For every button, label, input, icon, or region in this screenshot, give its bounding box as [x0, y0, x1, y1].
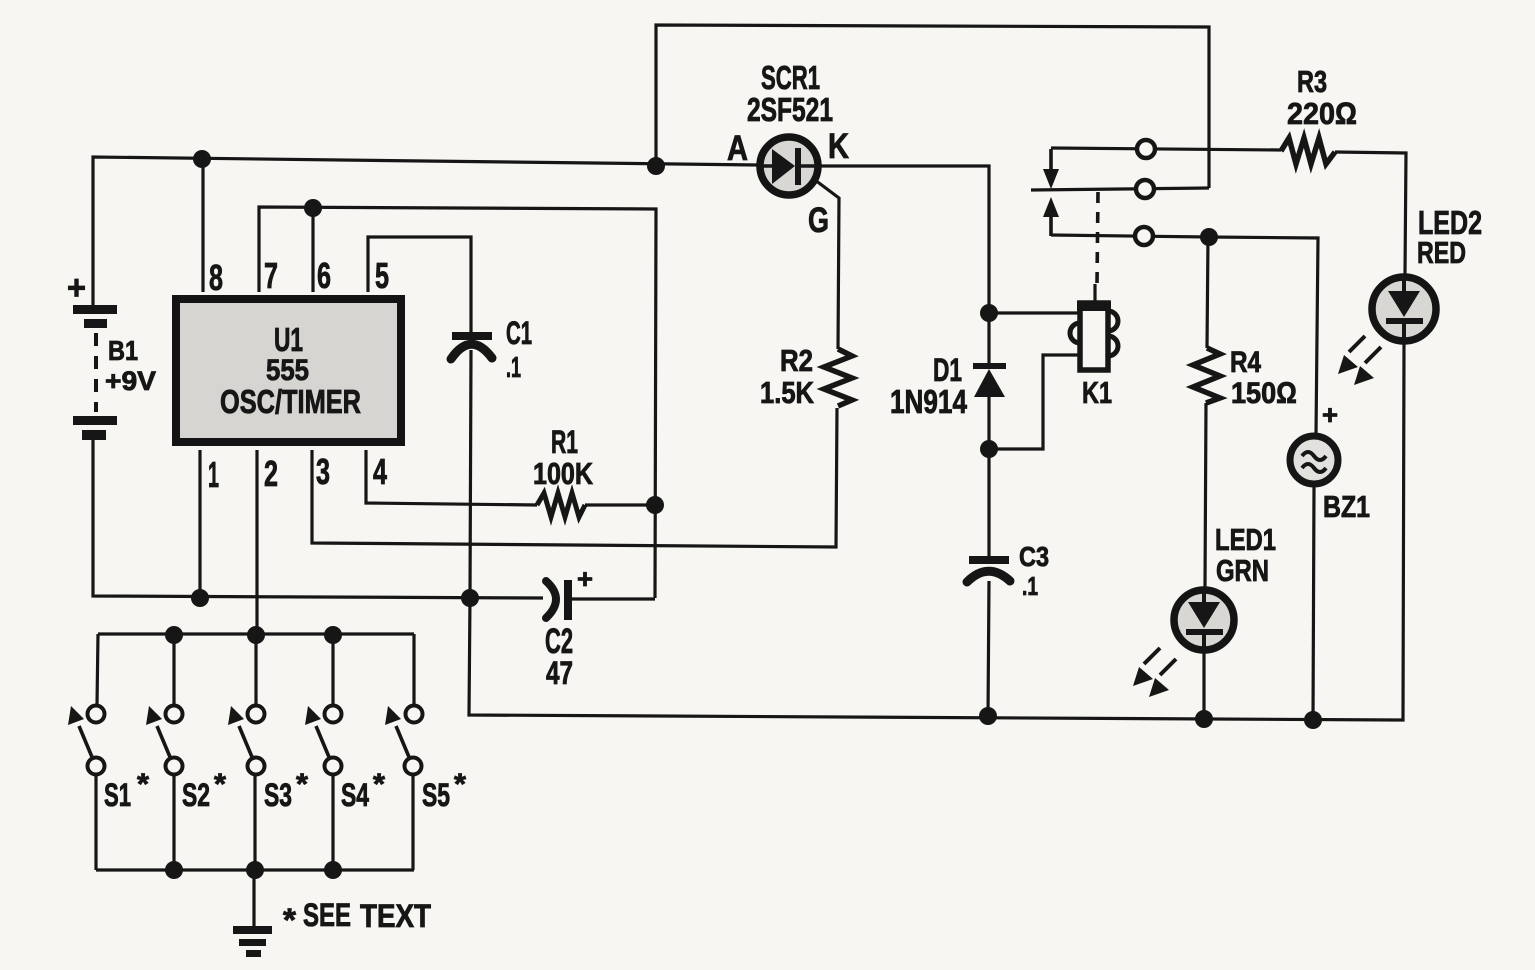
switch S2 [166, 706, 183, 723]
node LED1 bottom rail [1195, 710, 1213, 728]
svg-text:+: + [67, 269, 86, 307]
node C1 C2 bottom line [461, 589, 479, 607]
node relay contact R4 [1200, 228, 1218, 246]
IC U1 555 body [176, 299, 401, 442]
wire S3 top stub [254, 635, 257, 705]
resistor R3 zigzag [1281, 138, 1335, 164]
svg-text:C1: C1 [506, 315, 532, 351]
node BZ1 bottom rail [1304, 711, 1322, 729]
relay contact arrow down [1049, 149, 1053, 172]
wire C1 bottom down to bottom line junction [470, 350, 471, 598]
wire S4 top stub [331, 635, 334, 705]
wire R4 bottom to LED1 top [1205, 403, 1206, 587]
node D1 cathode coil return [980, 440, 998, 458]
svg-text:220Ω: 220Ω [1287, 96, 1357, 131]
svg-text:1.5K: 1.5K [760, 375, 815, 410]
relay contact arrow up [1043, 197, 1059, 217]
svg-text:S4: S4 [341, 777, 369, 813]
svg-text:B1: B1 [108, 335, 138, 366]
wire R1 right end to junction [585, 503, 655, 506]
node C3 bottom rail [979, 707, 997, 725]
svg-text:.1: .1 [506, 352, 521, 384]
switch S5 [406, 706, 423, 723]
wire S4 bottom stub [331, 775, 334, 870]
wire relay coil top stub [1093, 284, 1096, 303]
node bottom rail S4 [324, 861, 342, 879]
wire BZ1 bottom to bottom rail [1313, 487, 1314, 721]
wire relay coil bottom return to D1 bottom junction [989, 355, 1080, 449]
svg-text:A: A [727, 129, 748, 168]
battery B1 dashed center [94, 333, 98, 412]
SCR1 anode triangle [772, 149, 795, 184]
wire relay lower contact line to BZ1 top [1051, 235, 1318, 435]
wire pin 4 to R1 left end [366, 450, 537, 505]
wire pin 1 down to bottom line [198, 450, 201, 598]
wire pin 8 stub to supply rail [201, 159, 204, 292]
LED2 bar [1386, 318, 1423, 324]
LED2 triangle [1388, 291, 1420, 317]
wire R3 right to LED2 top [1335, 152, 1406, 274]
switch S1 [88, 706, 105, 723]
diode D1 cathode bar [973, 363, 1006, 369]
resistor R4 zigzag [1193, 348, 1220, 403]
wire S5 bottom stub [411, 775, 414, 870]
SCR1 inner leads [760, 164, 818, 168]
svg-text:TEXT: TEXT [360, 898, 431, 934]
node bottom rail S2 [165, 861, 183, 879]
node switch rail S4 [324, 626, 342, 644]
LED1 light arrows [1144, 648, 1176, 675]
LED2 inner lead [1402, 277, 1406, 341]
svg-text:.1: .1 [1022, 571, 1038, 601]
relay K1 coil loops [1070, 311, 1118, 356]
svg-text:OSC/TIMER: OSC/TIMER [220, 383, 361, 420]
svg-text:BZ1: BZ1 [1323, 489, 1370, 524]
wire pin 3 right to R2 bottom [312, 408, 837, 547]
node pin 6 on pins 6-7 line [304, 199, 322, 217]
LED1 bar [1186, 629, 1223, 635]
wire SCR cathode K to D1 top junction [821, 166, 989, 313]
wire D1 top junction to relay coil left [989, 311, 1080, 314]
ground symbol [233, 926, 272, 957]
LED2 light arrows [1349, 336, 1381, 363]
battery B1 [73, 305, 117, 440]
svg-text:7: 7 [264, 255, 278, 296]
svg-text:100K: 100K [533, 456, 593, 491]
wire C3 bottom to bottom rail [988, 581, 989, 716]
svg-text:*: * [296, 768, 308, 801]
node switch rail S3 [247, 626, 265, 644]
SCR1 cathode bar [795, 148, 801, 185]
capacitor C1 curved plate [451, 344, 492, 359]
svg-text:*: * [137, 768, 149, 801]
svg-text:RED: RED [1417, 235, 1466, 270]
WIRES_START [93, 25, 1406, 926]
switch S3 [248, 706, 265, 723]
wire switch top rail [98, 632, 414, 635]
wire pin 5 right to C1 top [368, 237, 471, 332]
node pin8 supply [193, 150, 211, 168]
node bottom rail S3 [246, 861, 264, 879]
diode D1 triangle [974, 369, 1005, 397]
svg-text:*: * [283, 902, 297, 938]
wire switch bottom rail [96, 868, 414, 871]
LED1 body [1174, 590, 1234, 650]
wire relay NO contact line to R3 left [1051, 148, 1281, 150]
svg-text:150Ω: 150Ω [1231, 377, 1297, 410]
svg-text:1: 1 [208, 454, 219, 495]
node R1 right C2 plus [646, 496, 664, 514]
wire long bottom rail from C2 junction down, right, and up to LED2 bottom [469, 344, 1404, 720]
capacitor C3 top plate [969, 556, 1009, 564]
svg-text:2SF521: 2SF521 [747, 91, 833, 128]
resistor R2 zigzag [824, 349, 852, 406]
svg-text:LED1: LED1 [1215, 522, 1276, 557]
svg-text:R2: R2 [780, 343, 813, 378]
relay contact circle middle [1136, 180, 1154, 198]
capacitor C2 curved plate [546, 581, 556, 618]
LED2 body [1372, 277, 1436, 341]
wire pin 2 down to switch top rail [255, 450, 258, 635]
relay K1 coil body [1080, 303, 1108, 370]
svg-text:R4: R4 [1230, 346, 1261, 379]
svg-text:47: 47 [546, 655, 573, 691]
svg-text:*: * [214, 768, 226, 801]
wire C2 right plate to R1 vertical [571, 597, 655, 600]
buzzer BZ1 tilde marks [1302, 452, 1326, 472]
capacitor C3 curved plate [967, 571, 1010, 582]
wire battery negative down and bottom line to C2 left plate [93, 440, 543, 598]
buzzer BZ1 body [1290, 436, 1338, 484]
node D1 anode K wire coil [980, 304, 998, 322]
relay contact circle top [1137, 140, 1155, 158]
svg-text:S1: S1 [104, 777, 131, 813]
svg-text:8: 8 [209, 257, 223, 298]
resistor R1 zigzag [537, 493, 585, 517]
wire LED1 bottom to bottom rail [1202, 653, 1205, 719]
svg-text:+: + [1322, 400, 1338, 430]
wire S1 top stub [97, 634, 98, 705]
node pin1 bottom line [191, 589, 209, 607]
svg-text:6: 6 [317, 255, 331, 296]
svg-text:*: * [454, 768, 466, 801]
svg-text:C3: C3 [1019, 541, 1049, 572]
svg-text:+9V: +9V [105, 366, 156, 396]
svg-text:5: 5 [375, 255, 389, 296]
wire S5 top stub [412, 634, 415, 705]
svg-text:GRN: GRN [1216, 553, 1269, 588]
svg-text:R3: R3 [1297, 64, 1327, 99]
wire junction down to R4 top [1207, 237, 1208, 348]
LED1 inner lead [1202, 590, 1206, 650]
svg-text:*: * [373, 768, 385, 801]
SCR1 body [760, 137, 818, 195]
svg-text:1N914: 1N914 [890, 383, 968, 420]
svg-text:S5: S5 [422, 777, 450, 813]
wire S3 bottom stub [253, 775, 256, 870]
switch S4 [325, 706, 342, 723]
relay contact circle bottom [1135, 227, 1153, 245]
wire relay armature line [1031, 188, 1209, 190]
LED1 triangle [1188, 602, 1220, 628]
wire D1 cathode down to junction and C3 top [987, 396, 990, 557]
svg-text:3: 3 [316, 451, 330, 492]
svg-text:SEE: SEE [303, 897, 351, 933]
wire R2 top to SCR gate G [815, 180, 839, 349]
wire S2 top stub [172, 635, 175, 705]
capacitor C1 top plate [452, 332, 492, 340]
capacitor C2 bar plate [564, 580, 572, 620]
svg-text:K1: K1 [1082, 375, 1112, 410]
node A-wire to top rail [647, 157, 665, 175]
wire S2 bottom stub [172, 775, 175, 870]
svg-text:+: + [577, 564, 593, 594]
svg-text:S3: S3 [264, 777, 292, 813]
svg-text:G: G [808, 201, 829, 240]
svg-text:K: K [828, 127, 849, 166]
node switch rail S2 [165, 626, 183, 644]
wire pin 6 stub [311, 208, 314, 292]
svg-text:2: 2 [264, 453, 278, 494]
wire S1 bottom stub [94, 775, 97, 870]
wire battery positive up and top supply rail to SCR anode [93, 157, 758, 305]
svg-text:R1: R1 [551, 424, 578, 460]
svg-text:S2: S2 [182, 777, 210, 813]
wire pin 7 up, pins 6-7 line right, down to R1 right end and C2 plus side [259, 207, 656, 598]
svg-text:U1: U1 [274, 321, 303, 358]
wire D1 anode vertical below K wire [987, 313, 990, 364]
wire relay armature dashed link to coil [1097, 192, 1098, 284]
svg-text:4: 4 [373, 451, 387, 492]
wire top rail from node A vertical up, across, down to relay armature [656, 25, 1209, 188]
wire ground stem [252, 870, 255, 926]
